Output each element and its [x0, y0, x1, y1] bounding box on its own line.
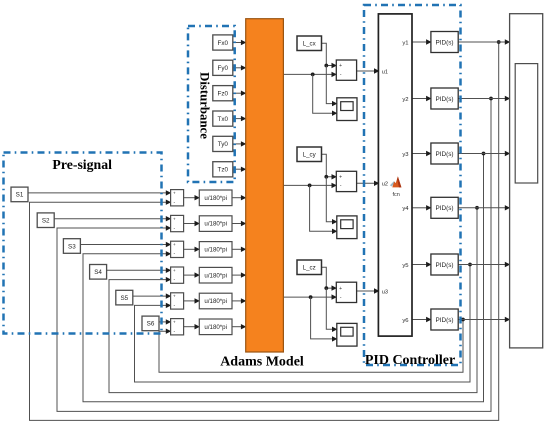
- junction node L_cx branch: [324, 64, 328, 68]
- wire Adams output z branch to Scope3 input 2: [311, 297, 338, 342]
- Adams Model plant block: [246, 19, 284, 352]
- wire feedback y4 into Sum4 minus input: [109, 208, 477, 393]
- wire L_cz branch to Scope3 input 1: [326, 288, 337, 332]
- source block S3: [63, 239, 80, 254]
- svg-text:Adams Model: Adams Model: [220, 355, 304, 370]
- svg-text:Tz0: Tz0: [218, 167, 229, 174]
- svg-text:-: -: [340, 72, 342, 78]
- junction node feedback y3: [482, 152, 486, 156]
- wire Tx0 to Adams Model input: [233, 116, 247, 121]
- constant block Ty0: [213, 136, 233, 151]
- wire L_cz to Sum_cz plus input: [322, 267, 337, 291]
- svg-text:u1: u1: [382, 69, 388, 75]
- wire L_cx branch to Scope1 input 1: [326, 66, 337, 107]
- wire L_cy branch to Scope2 input 1: [326, 177, 337, 225]
- svg-text:+: +: [173, 268, 176, 273]
- svg-text:PID(s): PID(s): [435, 262, 453, 269]
- wire Gain4 to Adams Model input: [232, 272, 246, 277]
- svg-text:fcn: fcn: [393, 192, 400, 198]
- wire Adams output y branch to Scope2 input 2: [310, 185, 338, 234]
- junction node Adams output x: [311, 73, 315, 77]
- gain block Gain2 u/180*pi: [199, 216, 232, 232]
- svg-text:PID Controller: PID Controller: [365, 353, 455, 368]
- junction node L_cy branch: [324, 175, 328, 179]
- wire Fx0 to Adams Model input: [233, 40, 247, 45]
- svg-text:PID(s): PID(s): [435, 151, 453, 158]
- gain block Gain1 u/180*pi: [199, 190, 232, 206]
- svg-text:+: +: [339, 63, 342, 69]
- svg-text:+: +: [339, 286, 342, 292]
- gain block Gain4 u/180*pi: [199, 267, 232, 283]
- svg-text:Fz0: Fz0: [218, 91, 229, 98]
- PID block PID3 PID(s): [431, 143, 458, 164]
- svg-text:+: +: [173, 216, 176, 221]
- sum block Sum1: [171, 190, 184, 206]
- PID block PID1 PID(s): [431, 32, 458, 53]
- svg-text:u/180*pi: u/180*pi: [204, 324, 227, 331]
- wire feedback y3 into Sum3 minus input: [83, 154, 484, 402]
- wire PID3 to Scope main input 3: [458, 151, 510, 156]
- wire S3 to Sum3 plus input: [80, 242, 171, 247]
- sum block Sum3: [171, 241, 184, 257]
- wire Sum_cz to PID Controller input u3: [357, 288, 380, 293]
- svg-text:S4: S4: [94, 269, 102, 276]
- sum block Sum2: [171, 215, 184, 231]
- svg-text:+: +: [173, 191, 176, 196]
- PID block PID5 PID(s): [431, 254, 458, 275]
- constant block Tx0: [213, 111, 233, 126]
- PID block PID2 PID(s): [431, 88, 458, 109]
- wire Gain2 to Adams Model input: [232, 221, 246, 226]
- MATLAB Function block PID Controller U1: [378, 14, 412, 336]
- gain block Gain3 u/180*pi: [199, 242, 232, 258]
- sum block Sum_cz: [336, 282, 356, 302]
- svg-text:L_cy: L_cy: [303, 152, 317, 159]
- source block S4: [90, 265, 107, 280]
- wire Sum6 to Gain6: [184, 324, 200, 329]
- wire Fz0 to Adams Model input: [233, 91, 247, 96]
- svg-text:u/180*pi: u/180*pi: [204, 195, 227, 202]
- wire Sum1 to Gain1: [184, 195, 200, 200]
- junction node feedback y1: [497, 40, 501, 44]
- PID block PID6 PID(s): [431, 309, 458, 330]
- svg-text:+: +: [173, 320, 176, 325]
- wire S4 to Sum4 plus input: [107, 268, 172, 273]
- junction node Adams output y: [308, 184, 312, 188]
- wire Tz0 to Adams Model input: [233, 167, 247, 172]
- svg-text:PID(s): PID(s): [435, 39, 453, 46]
- svg-text:PID(s): PID(s): [435, 317, 453, 324]
- PID block PID4 PID(s): [431, 197, 458, 218]
- wire L_cy to Sum_cy plus input: [322, 154, 337, 179]
- wire feedback y5 into Sum5 minus input: [135, 265, 471, 383]
- wire feedback y6 into Sum6 minus input: [159, 320, 463, 373]
- wire Adams Model output x to Sum_cx minus input: [283, 72, 337, 77]
- svg-text:-: -: [340, 183, 342, 189]
- svg-text:y5: y5: [402, 263, 409, 269]
- source block S1: [11, 187, 28, 202]
- svg-text:PID(s): PID(s): [435, 205, 453, 212]
- source block S5: [116, 290, 133, 305]
- svg-text:+: +: [173, 294, 176, 299]
- wire Adams Model output y to Sum_cy minus input: [283, 183, 337, 188]
- svg-text:S6: S6: [147, 321, 155, 328]
- sum block Sum_cx: [336, 60, 356, 80]
- junction node feedback y5: [468, 263, 472, 267]
- wire Gain6 to Adams Model input: [232, 324, 246, 329]
- junction node feedback y4: [475, 206, 479, 210]
- junction node L_cz branch: [324, 286, 328, 290]
- dashed area Disturbance: [188, 26, 235, 182]
- wire S1 to Sum1 plus input: [28, 190, 171, 195]
- svg-text:u2: u2: [382, 182, 388, 188]
- constant block Tz0: [213, 162, 233, 177]
- svg-text:u/180*pi: u/180*pi: [204, 272, 227, 279]
- wire S2 to Sum2 plus input: [54, 216, 171, 221]
- constant block Fx0: [213, 35, 233, 50]
- wire Sum_cy to PID Controller input u2: [357, 181, 380, 186]
- wire PID Controller output y6 to PID6: [412, 317, 432, 322]
- svg-text:u/180*pi: u/180*pi: [204, 298, 227, 305]
- wire S6 to Sum6 plus input: [159, 319, 171, 324]
- svg-text:Ty0: Ty0: [218, 141, 229, 148]
- wire Fy0 to Adams Model input: [233, 65, 247, 70]
- svg-text:Fx0: Fx0: [218, 40, 229, 47]
- svg-text:u3: u3: [382, 289, 388, 295]
- wire Adams output x branch to Scope1 input 2: [313, 74, 338, 116]
- wire Sum3 to Gain3: [184, 247, 200, 252]
- wire Sum4 to Gain4: [184, 272, 200, 277]
- svg-text:-: -: [340, 295, 342, 301]
- source block S6: [142, 316, 159, 331]
- svg-text:PID(s): PID(s): [435, 96, 453, 103]
- source block S2: [37, 213, 54, 228]
- sum block Sum5: [171, 293, 184, 309]
- svg-text:+: +: [173, 242, 176, 247]
- svg-text:L_cz: L_cz: [303, 265, 316, 272]
- constant block Fz0: [213, 86, 233, 101]
- svg-text:+: +: [339, 175, 342, 181]
- svg-text:u/180*pi: u/180*pi: [204, 221, 227, 228]
- constant block L_cz: [297, 260, 322, 275]
- gain block Gain5 u/180*pi: [199, 293, 232, 309]
- wire PID2 to Scope main input 2: [458, 96, 510, 101]
- wire Gain1 to Adams Model input: [232, 195, 246, 200]
- wire PID Controller output y1 to PID1: [412, 39, 432, 44]
- wire PID1 to Scope main input 1: [458, 39, 510, 44]
- wire feedback y1 into Sum1 minus input: [30, 42, 499, 420]
- sum block Sum4: [171, 267, 184, 283]
- wire Sum_cx to PID Controller input u1: [357, 68, 380, 73]
- wire PID Controller output y3 to PID3: [412, 151, 432, 156]
- dashed area PID Controller: [364, 5, 461, 365]
- wire Gain5 to Adams Model input: [232, 298, 246, 303]
- svg-text:u/180*pi: u/180*pi: [204, 247, 227, 254]
- wire PID Controller output y4 to PID4: [412, 205, 432, 210]
- MATLAB fcn icon: [390, 176, 402, 198]
- junction node feedback y6: [461, 318, 465, 322]
- svg-text:y1: y1: [402, 40, 408, 46]
- scope block Scope2: [337, 216, 357, 239]
- svg-text:Pre-signal: Pre-signal: [52, 157, 112, 172]
- svg-text:Tx0: Tx0: [218, 116, 229, 123]
- svg-text:S3: S3: [68, 243, 76, 250]
- svg-text:y6: y6: [402, 318, 409, 324]
- sum block Sum6: [171, 319, 184, 335]
- wire Sum5 to Gain5: [184, 298, 200, 303]
- svg-text:Disturbance: Disturbance: [197, 72, 211, 139]
- junction node Adams output z: [309, 295, 313, 299]
- wire PID6 to Scope main input 6: [458, 317, 510, 322]
- sum block Sum_cy: [336, 171, 356, 191]
- wire Gain3 to Adams Model input: [232, 247, 246, 252]
- svg-text:L_cx: L_cx: [303, 41, 317, 48]
- svg-text:S2: S2: [42, 218, 50, 225]
- wire Ty0 to Adams Model input: [233, 141, 247, 146]
- wire PID4 to Scope main input 4: [458, 205, 510, 210]
- wire feedback y2 into Sum2 minus input: [57, 99, 491, 412]
- dashed area Pre-signal: [4, 153, 162, 334]
- wire PID Controller output y5 to PID5: [412, 262, 432, 267]
- scope block Scope1: [337, 98, 357, 121]
- wire Sum2 to Gain2: [184, 221, 200, 226]
- junction node feedback y2: [489, 97, 493, 101]
- svg-text:S5: S5: [120, 295, 128, 302]
- constant block Fy0: [213, 60, 233, 75]
- wire L_cx to Sum_cx plus input: [322, 43, 337, 68]
- wire PID5 to Scope main input 5: [458, 262, 510, 267]
- wire Adams Model output z to Sum_cz minus input: [283, 294, 337, 299]
- scope block Scope main (6-channel): [510, 14, 543, 348]
- svg-text:y4: y4: [402, 206, 409, 212]
- constant block L_cx: [297, 36, 322, 51]
- constant block L_cy: [297, 147, 322, 162]
- svg-text:y2: y2: [402, 97, 408, 103]
- scope block Scope3: [337, 323, 357, 346]
- svg-text:S1: S1: [16, 192, 24, 199]
- svg-text:Fy0: Fy0: [218, 65, 229, 72]
- wire PID Controller output y2 to PID2: [412, 96, 432, 101]
- gain block Gain6 u/180*pi: [199, 319, 232, 335]
- svg-text:y3: y3: [402, 152, 409, 158]
- wire S5 to Sum5 plus input: [133, 293, 171, 298]
